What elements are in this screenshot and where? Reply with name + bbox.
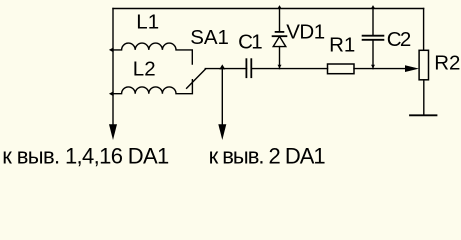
svg-text:L1: L1 (136, 11, 159, 34)
svg-text:R1: R1 (329, 33, 355, 56)
svg-text:L2: L2 (133, 58, 156, 81)
potentiometer R2 wiper arrow (405, 65, 419, 72)
capacitor C1 (246, 59, 251, 77)
wire R2 to ground (423, 80, 425, 116)
svg-text:к выв. 2 DA1: к выв. 2 DA1 (209, 143, 326, 168)
capacitor C2 (363, 9, 384, 69)
node junction to pin2 arrow (219, 64, 225, 69)
svg-text:R2: R2 (434, 52, 460, 75)
wire left vertical bus (112, 9, 114, 127)
node VD1 top on rail (277, 5, 282, 9)
wire top rail (113, 8, 424, 10)
node L2 tap on left bus (109, 91, 114, 96)
ground (410, 114, 437, 116)
node VD1 bottom on middle wire (278, 65, 282, 69)
wire down to pin 2 DA1 (221, 69, 223, 127)
arrow to pin 2 DA1 (218, 124, 226, 140)
potentiometer R2 (419, 50, 428, 80)
switch SA1 blade (187, 69, 206, 88)
wire right drop to R2 (423, 9, 425, 51)
inductor L2 (113, 80, 192, 94)
wire C1 to R1 (251, 68, 327, 70)
node L1 tap on left bus (109, 47, 114, 52)
arrow to pins 1,4,16 DA1 (109, 124, 117, 140)
inductor L1 (113, 43, 192, 64)
resistor R1 (328, 64, 355, 74)
svg-text:SA1: SA1 (190, 26, 229, 49)
wire middle horizontal (switch to C1) (205, 68, 246, 70)
node C2 top on rail (371, 5, 376, 9)
node C2 bottom on middle wire (371, 65, 375, 69)
svg-text:VD1: VD1 (286, 20, 325, 43)
varicap VD1 (273, 9, 287, 69)
svg-text:C1: C1 (238, 30, 263, 53)
svg-text:к выв. 1,4,16 DA1: к выв. 1,4,16 DA1 (2, 143, 169, 168)
svg-text:C2: C2 (387, 28, 412, 51)
wire R1 to R2 wiper (354, 68, 410, 70)
